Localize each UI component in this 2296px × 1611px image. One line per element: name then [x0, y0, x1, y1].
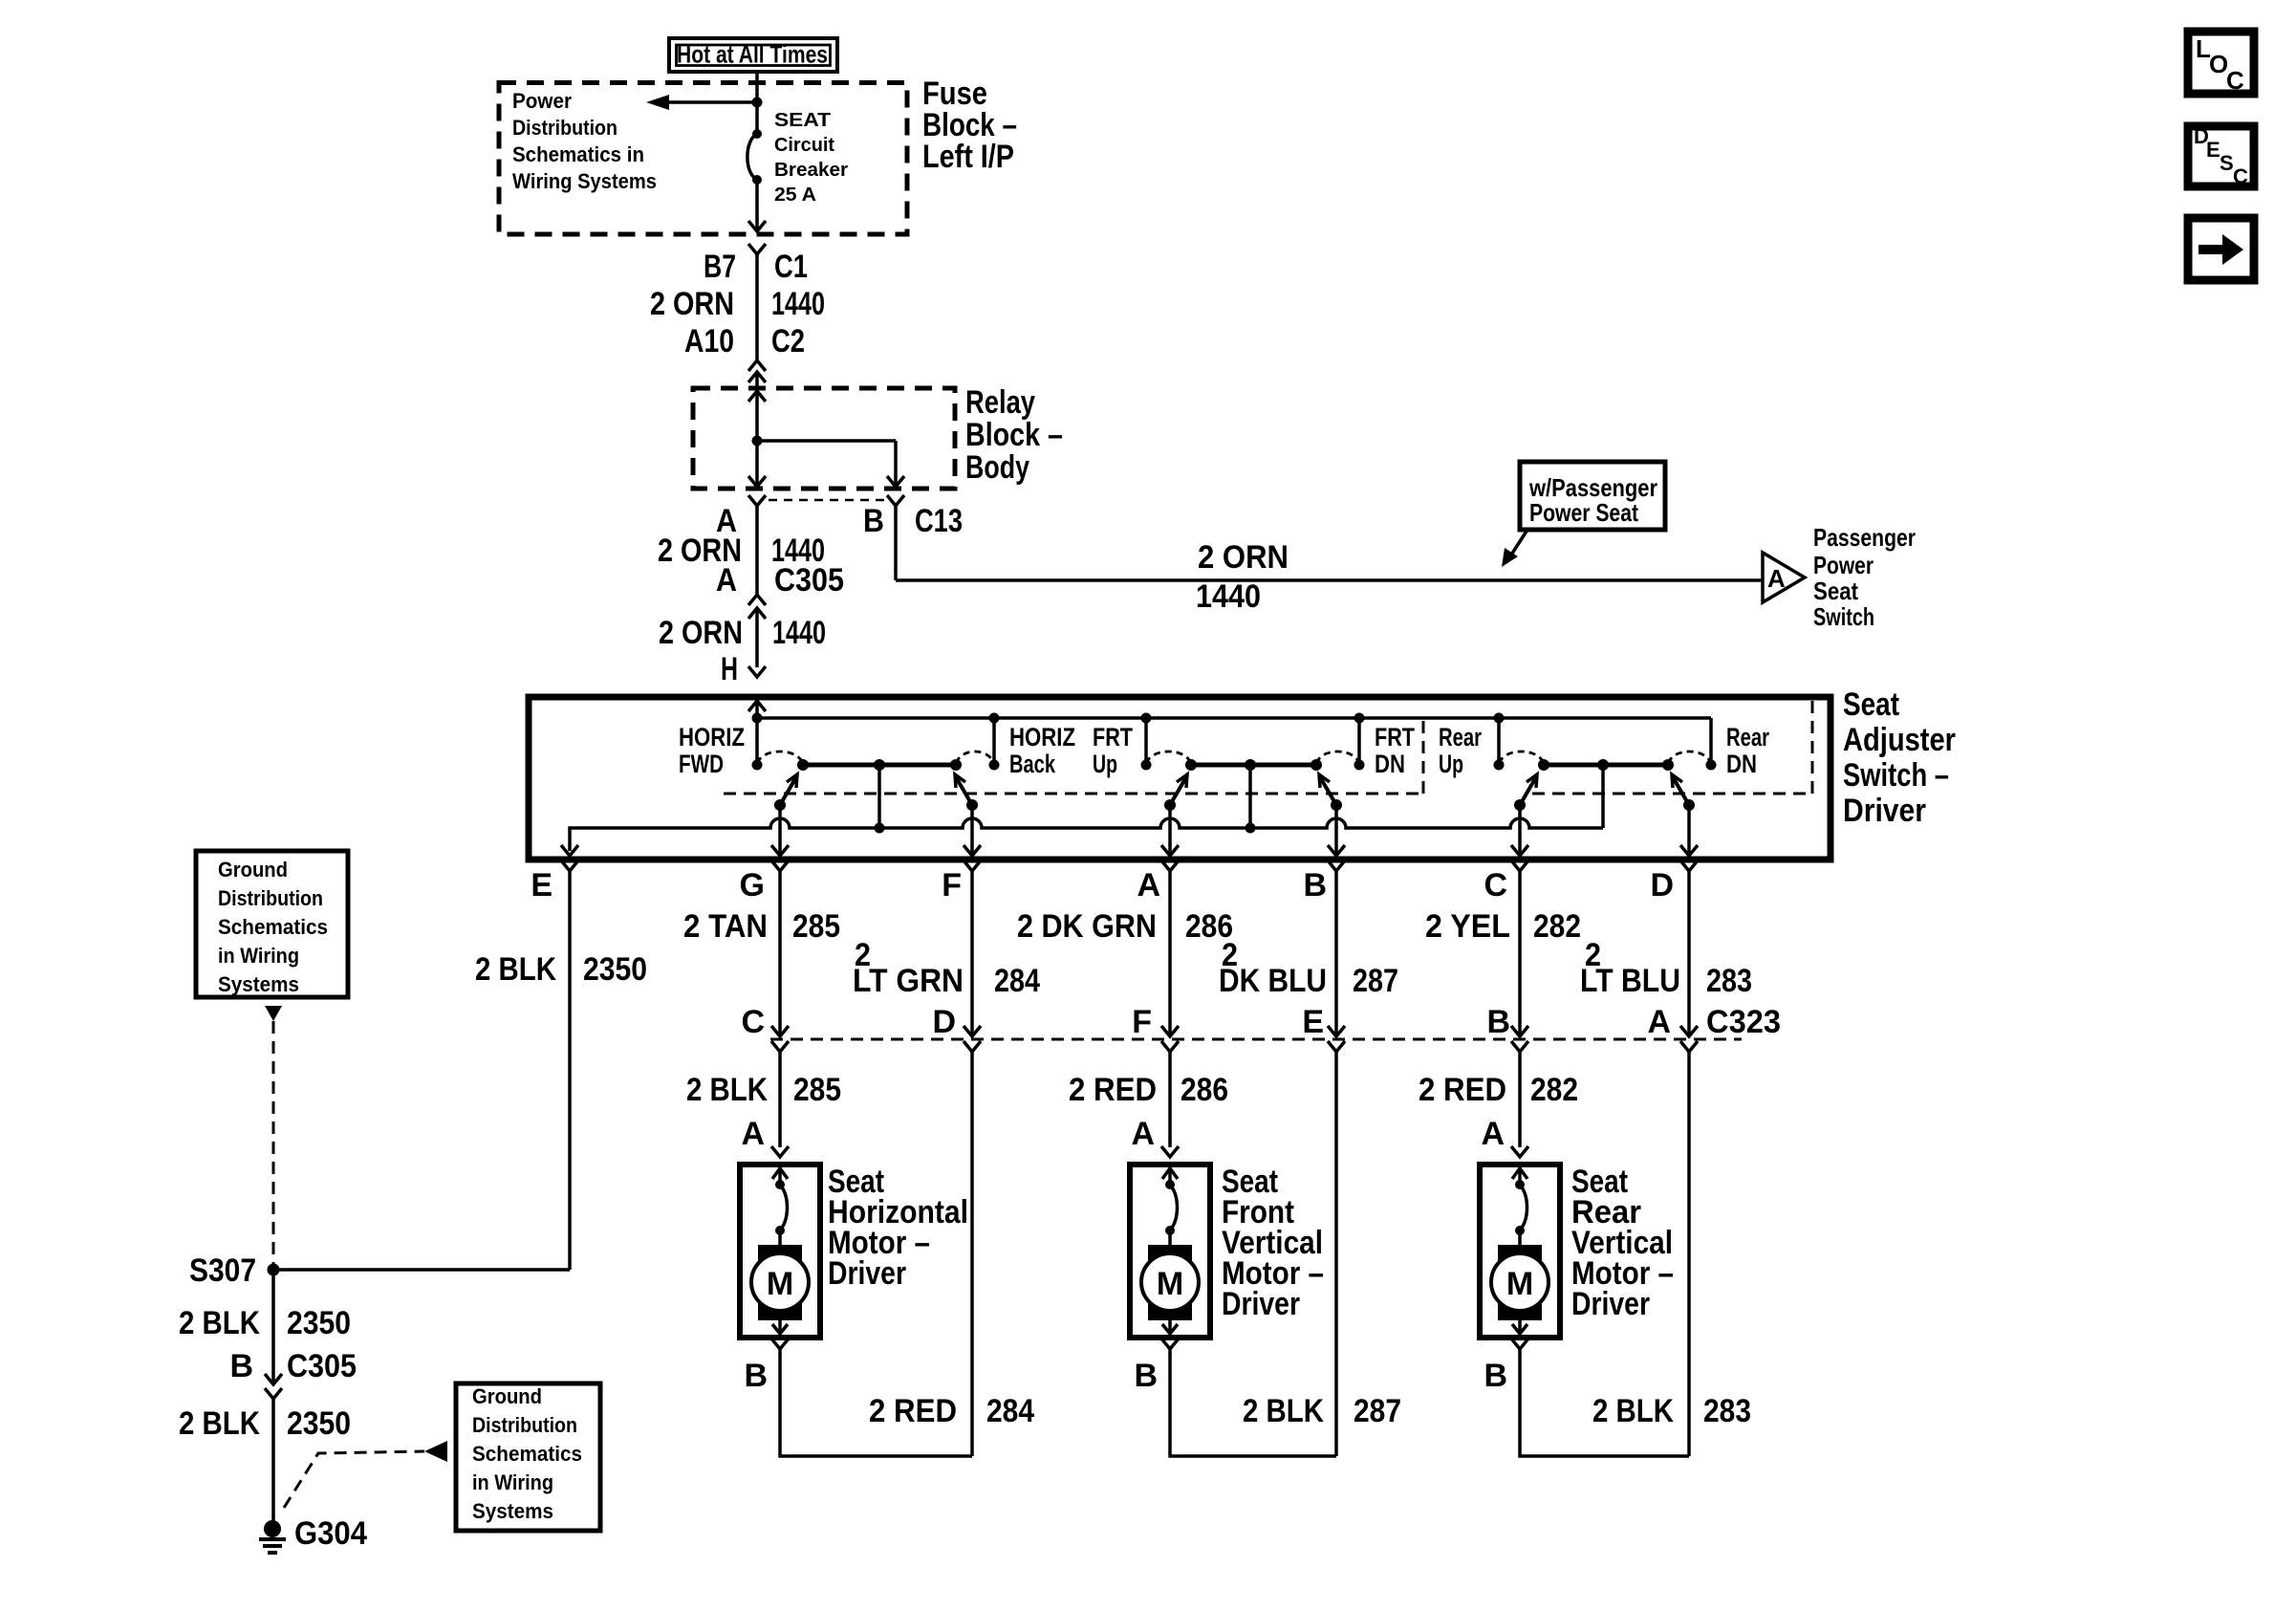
svg-text:285: 285 — [792, 908, 840, 945]
svg-text:282: 282 — [1530, 1072, 1578, 1108]
svg-text:S307: S307 — [189, 1252, 256, 1289]
svg-text:284: 284 — [994, 963, 1040, 999]
svg-text:Power Seat: Power Seat — [1529, 498, 1638, 527]
switch group 2 (front vertical): right wiper arm — [1319, 774, 1342, 811]
svg-text:Ground: Ground — [218, 858, 288, 882]
svg-text:Up: Up — [1439, 750, 1463, 778]
off-page connector A to Passenger Power Seat Switch — [1763, 553, 1805, 602]
svg-text:Switch –: Switch – — [1843, 757, 1949, 794]
wire: branch to power distribution schematics (left arrow) — [646, 95, 757, 110]
svg-text:C: C — [741, 1004, 765, 1040]
label: Passenger Power Seat Switch — [1813, 523, 1916, 631]
svg-text:Distribution: Distribution — [472, 1413, 577, 1437]
svg-text:D: D — [932, 1004, 956, 1040]
svg-text:H: H — [721, 651, 738, 687]
label HORIZ FWD — [679, 723, 745, 778]
exit arrow at switch pin C — [1511, 845, 1528, 856]
svg-text:287: 287 — [1353, 963, 1398, 999]
svg-text:A: A — [1137, 867, 1160, 903]
switch group 3 (rear vertical): blade — [1538, 759, 1674, 771]
svg-text:285: 285 — [793, 1072, 841, 1108]
svg-text:2 ORN: 2 ORN — [1198, 539, 1289, 576]
svg-text:2 RED: 2 RED — [1419, 1072, 1506, 1108]
wire: circuit 1440, 2 ORN from relay pin A to C305 — [755, 506, 759, 595]
svg-text:283: 283 — [1706, 963, 1752, 999]
svg-text:1440: 1440 — [772, 615, 826, 651]
switch group 1 (seat horizontal): left wiper arm — [774, 774, 797, 811]
wire: feed stub to FRT DN contact — [1357, 718, 1361, 765]
switch group 1 (seat horizontal): right wiper arm — [955, 774, 978, 811]
connector C323 halves at pin A — [1680, 1026, 1698, 1052]
reference arrow into dashed wire — [424, 1441, 447, 1462]
svg-text:Schematics: Schematics — [218, 915, 328, 939]
switch group 1 (seat horizontal): rest-position dashed arc right — [956, 751, 994, 763]
switch S: Seat Adjuster Switch - Driver box — [529, 697, 1830, 860]
wire: feed stub to FRT Up contact — [1144, 718, 1148, 765]
svg-text:LT GRN: LT GRN — [853, 963, 964, 999]
connector C13 dashed mating line — [769, 499, 886, 502]
svg-text:A: A — [741, 1116, 765, 1152]
reference icon box DESC — [2188, 124, 2254, 188]
junction node at fuse block feed — [752, 98, 763, 108]
wire: circuit 286, 2 DK GRN from switch A to C323 — [1168, 871, 1172, 1036]
wire: blade center tap to ground rail — [877, 765, 881, 828]
wire: circuit 2350, 2 BLK from S307 to C305 — [271, 1270, 275, 1384]
wire: circuit 1440, 2 ORN from relay pin B to passenger power seat switch — [896, 506, 1762, 580]
svg-text:C: C — [2233, 164, 2248, 188]
svg-text:Driver: Driver — [1571, 1286, 1650, 1322]
wire: circuit 1440, 2 ORN from C305 to switch pin H — [755, 608, 759, 667]
exit arrow at relay pin A — [748, 476, 766, 487]
svg-text:2 RED: 2 RED — [869, 1393, 957, 1429]
tag box "Hot at All Times" — [669, 38, 837, 72]
wire label 2 LT BLU (stacked) — [1580, 937, 1680, 999]
label: Fuse Block - Left I/P — [922, 76, 1017, 175]
svg-text:C1: C1 — [774, 249, 808, 285]
svg-text:B: B — [1484, 1358, 1507, 1394]
ground G304 — [259, 1520, 286, 1553]
wire: feed stub to HORIZ Back contact — [992, 718, 996, 765]
svg-text:Driver: Driver — [1222, 1286, 1300, 1322]
svg-text:2 BLK: 2 BLK — [686, 1072, 768, 1108]
svg-text:F: F — [1132, 1004, 1152, 1040]
wire: circuit 283, 2 LT BLU from switch D to C323 — [1687, 871, 1691, 1036]
junction node: group 2 center tap on ground rail — [1245, 823, 1256, 834]
svg-text:A: A — [1647, 1004, 1671, 1040]
svg-text:2 RED: 2 RED — [1069, 1072, 1157, 1108]
reference icon box with arrow — [2188, 218, 2254, 280]
svg-text:Block –: Block – — [965, 417, 1063, 453]
svg-text:Circuit: Circuit — [774, 134, 834, 156]
connector half at front vertical motor pin A — [1161, 1146, 1179, 1157]
svg-text:A: A — [716, 562, 737, 599]
label: Relay Block - Body — [965, 384, 1063, 486]
svg-text:C13: C13 — [915, 503, 963, 539]
switch group 3 (rear vertical): right wiper arm — [1672, 774, 1695, 811]
svg-text:Schematics: Schematics — [472, 1442, 582, 1466]
switch group 3 (rear vertical): left wiper arm — [1514, 774, 1537, 811]
svg-text:2350: 2350 — [287, 1405, 351, 1442]
note: Power Distribution Schematics in Wiring Systems — [512, 89, 657, 193]
contact Rear Up — [1494, 760, 1505, 771]
svg-text:2 ORN: 2 ORN — [659, 615, 743, 651]
svg-text:DN: DN — [1375, 750, 1405, 778]
svg-text:A: A — [1131, 1116, 1155, 1152]
connector half at front vertical motor pin B — [1161, 1339, 1179, 1349]
svg-text:2 BLK: 2 BLK — [1243, 1393, 1324, 1429]
junction node: feed rail at HORIZ Back — [989, 713, 1000, 724]
contact Rear DN — [1706, 760, 1717, 771]
svg-text:284: 284 — [986, 1393, 1034, 1429]
connector C1 female half below fuse block — [748, 244, 766, 254]
svg-text:in Wiring: in Wiring — [218, 944, 299, 968]
svg-text:Distribution: Distribution — [512, 116, 617, 140]
svg-text:2 TAN: 2 TAN — [683, 908, 768, 945]
junction node: group 1 center tap on ground rail — [875, 823, 885, 834]
switch group 2 (front vertical): blade — [1185, 759, 1322, 771]
junction node: feed rail at HORIZ FWD — [752, 713, 763, 724]
junction node inside relay block — [752, 436, 763, 446]
in-line connector C2 — [748, 360, 766, 388]
svg-text:283: 283 — [1703, 1393, 1751, 1429]
svg-text:Systems: Systems — [218, 972, 299, 996]
wire: circuit 1440, 2 ORN from C1 to C2 — [755, 254, 759, 360]
svg-text:2 BLK: 2 BLK — [1592, 1393, 1674, 1429]
connector C323 halves at pin D — [964, 1026, 981, 1052]
svg-text:Power: Power — [512, 89, 572, 113]
wire label 2 LT GRN (stacked) — [853, 937, 964, 999]
connector C323 halves at pin F — [1161, 1026, 1179, 1052]
svg-text:B7: B7 — [704, 249, 736, 285]
svg-text:Ground: Ground — [472, 1384, 542, 1408]
connector half at horizontal motor pin A — [771, 1146, 789, 1157]
contact FRT DN — [1354, 760, 1365, 771]
svg-text:2350: 2350 — [287, 1305, 351, 1341]
connector half at horizontal motor pin B — [771, 1339, 789, 1349]
svg-text:Relay: Relay — [965, 384, 1035, 421]
wire: circuit 284 return leg to horizontal motor pin B — [970, 1052, 974, 1456]
dashed reference wire from G304 to ground distribution box — [284, 1451, 424, 1508]
svg-text:B: B — [744, 1358, 768, 1394]
wire: circuit 285, 2 TAN from switch G to C323 — [778, 871, 782, 1036]
wire: left wiper to output pin — [1168, 805, 1172, 856]
svg-text:Up: Up — [1093, 750, 1117, 778]
svg-text:Wiring Systems: Wiring Systems — [512, 169, 657, 193]
motor M2: Seat Front Vertical Motor - Driver (with internal circuit breaker) — [1130, 1165, 1210, 1338]
reference box: Ground Distribution Schematics in Wiring Systems (lower) — [456, 1383, 600, 1531]
connector C323 halves at pin E — [1328, 1026, 1345, 1052]
switch group 3 (rear vertical): rest-position dashed arc right — [1668, 751, 1711, 763]
svg-text:E: E — [1302, 1004, 1324, 1040]
svg-text:Rear: Rear — [1726, 723, 1769, 751]
wire: blade center tap to ground rail — [1601, 765, 1605, 828]
wire: switch feed entry at pin H — [748, 701, 766, 765]
svg-text:E: E — [531, 867, 552, 903]
svg-text:Driver: Driver — [1843, 793, 1926, 829]
svg-text:B: B — [1303, 867, 1327, 903]
svg-text:LT BLU: LT BLU — [1580, 963, 1680, 999]
connector half below switch pin C — [1511, 860, 1528, 871]
reference arrow from ground distribution box — [265, 1006, 282, 1021]
wire: circuit 285, 2 BLK from C323 to horizontal motor pin A — [778, 1052, 782, 1147]
junction node: feed rail at FRT DN — [1354, 713, 1365, 724]
reference box: Ground Distribution Schematics in Wiring Systems (upper) — [196, 851, 348, 997]
exit arrow at switch pin B — [1328, 845, 1345, 856]
wire: circuit 2350, 2 BLK from C305 to ground G304 — [271, 1399, 275, 1524]
label: Seat Rear Vertical Motor - Driver — [1571, 1164, 1674, 1322]
svg-text:FRT: FRT — [1093, 723, 1133, 751]
in-line connector C305 — [748, 595, 766, 619]
svg-text:HORIZ: HORIZ — [1009, 723, 1075, 751]
connector half at rear vertical motor pin A — [1511, 1146, 1528, 1157]
splice S307 — [268, 1264, 280, 1276]
svg-text:DK BLU: DK BLU — [1219, 963, 1327, 999]
svg-text:C305: C305 — [774, 562, 844, 599]
svg-text:Breaker: Breaker — [774, 159, 848, 181]
wire: relay internal branch to pin B — [757, 441, 896, 487]
svg-text:2 BLK: 2 BLK — [179, 1305, 260, 1341]
dashed divider between FRT DN and Rear Up — [1422, 718, 1425, 794]
svg-text:Body: Body — [965, 449, 1029, 486]
svg-text:Schematics in: Schematics in — [512, 142, 644, 166]
wire: right wiper to output pin — [1334, 805, 1338, 856]
wire: circuit 287 return leg to front vertical motor pin B — [1334, 1052, 1338, 1456]
connector half below switch pin B — [1328, 860, 1345, 871]
contact HORIZ FWD — [752, 760, 763, 771]
wire: breaker output to fuse block pin B7 — [748, 180, 766, 231]
svg-text:282: 282 — [1533, 908, 1581, 945]
connector C13 half at relay pin B — [887, 495, 904, 506]
dashed divider right of Rear DN — [1811, 699, 1814, 794]
svg-text:G304: G304 — [294, 1515, 367, 1552]
label Rear Up — [1439, 723, 1482, 778]
svg-text:A: A — [1481, 1116, 1505, 1152]
svg-text:A10: A10 — [684, 323, 734, 359]
exit arrow at switch pin F — [964, 845, 981, 856]
svg-text:F: F — [942, 867, 962, 903]
motor M3: Seat Rear Vertical Motor - Driver (with internal circuit breaker) — [1480, 1165, 1560, 1338]
connector half below switch pin E — [561, 860, 578, 871]
label HORIZ Back — [1009, 723, 1075, 778]
junction node: feed rail at Rear Up — [1494, 713, 1505, 724]
svg-text:1440: 1440 — [1196, 578, 1261, 615]
svg-text:FWD: FWD — [679, 750, 724, 778]
dashed mechanical coupling line, group 3 — [1532, 793, 1812, 795]
connector half below switch pin A — [1161, 860, 1179, 871]
wire: ground return rail to pin E with hops over crossing wires — [570, 818, 1603, 851]
label: Seat Horizontal Motor - Driver — [828, 1164, 968, 1292]
svg-text:Seat: Seat — [1843, 686, 1899, 723]
svg-text:A: A — [1767, 564, 1786, 593]
svg-text:E: E — [2206, 138, 2220, 162]
switch group 1 (seat horizontal): blade — [797, 759, 962, 771]
svg-text:B: B — [1486, 1004, 1510, 1040]
wire: battery feed from Hot at All Times into fuse block — [755, 72, 759, 134]
connector C323 halves at pin C — [771, 1026, 789, 1052]
wire: circuit 286, 2 RED from C323 to front vertical motor pin A — [1168, 1052, 1172, 1147]
svg-text:S: S — [2220, 151, 2234, 175]
wire: right wiper to output pin — [1687, 805, 1691, 856]
wire: circuit 2350, 2 BLK from switch pin E down to splice S307 — [568, 871, 572, 1270]
svg-text:Passenger: Passenger — [1813, 523, 1916, 552]
wire: circuit 287, 2 BLK from front vertical motor pin B — [1170, 1349, 1336, 1456]
label Rear DN — [1726, 723, 1769, 778]
connector half at switch pin H — [748, 666, 766, 677]
circuit breaker SEAT 25 A — [747, 129, 762, 185]
fuse block dashed outline (Fuse Block - Left I/P) — [499, 83, 907, 235]
svg-text:C305: C305 — [287, 1348, 357, 1384]
switch group 1 (seat horizontal): rest-position dashed arc left — [757, 751, 803, 763]
in-line connector C305 (ground leg) — [265, 1374, 282, 1399]
connector half below switch pin F — [964, 860, 981, 871]
reference icon box LOC — [2188, 32, 2254, 95]
wire: circuit 282, 2 YEL from switch C to C323 — [1518, 871, 1522, 1036]
svg-text:Power: Power — [1813, 551, 1874, 579]
svg-text:C: C — [2226, 66, 2244, 95]
tag box "w/Passenger Power Seat" with pointer arrow — [1502, 462, 1665, 567]
contact FRT Up — [1141, 760, 1152, 771]
connector half below switch pin D — [1680, 860, 1698, 871]
svg-text:25 A: 25 A — [774, 184, 816, 206]
dashed mechanical coupling line, groups 1-2 — [724, 793, 1423, 795]
svg-text:Switch: Switch — [1813, 602, 1874, 631]
wire: left wiper to output pin — [778, 805, 782, 856]
svg-text:287: 287 — [1354, 1393, 1401, 1429]
svg-text:C: C — [1484, 867, 1507, 903]
svg-text:2 BLK: 2 BLK — [475, 951, 556, 988]
wire label 2 DK BLU (stacked) — [1219, 937, 1327, 999]
wire: circuit 282, 2 RED from C323 to rear vertical motor pin A — [1518, 1052, 1522, 1147]
exit arrow at switch pin D — [1680, 845, 1698, 856]
connector half at relay pin A — [748, 495, 766, 506]
connector C323 halves at pin B — [1511, 1026, 1528, 1052]
connector half at rear vertical motor pin B — [1511, 1339, 1528, 1349]
wire: circuit 284, 2 RED from horizontal motor pin B — [780, 1349, 972, 1456]
switch group 2 (front vertical): left wiper arm — [1164, 774, 1187, 811]
svg-text:Back: Back — [1009, 750, 1056, 778]
svg-text:1440: 1440 — [771, 286, 825, 322]
wire: right wiper to output pin — [970, 805, 974, 856]
connector C323 dashed line — [770, 1038, 1742, 1041]
svg-text:Driver: Driver — [828, 1255, 906, 1292]
connector half below switch pin G — [771, 860, 789, 871]
svg-text:2 YEL: 2 YEL — [1425, 908, 1510, 945]
svg-text:B: B — [863, 503, 884, 539]
exit arrow at switch pin A — [1161, 845, 1179, 856]
contact HORIZ Back — [989, 760, 1000, 771]
svg-text:G: G — [740, 867, 765, 903]
label FRT Up — [1093, 723, 1133, 778]
wire: circuit 284, 2 LT GRN from switch F to C323 — [970, 871, 974, 1036]
svg-text:286: 286 — [1180, 1072, 1228, 1108]
svg-text:B: B — [229, 1348, 253, 1384]
exit arrow at relay pin B — [887, 476, 904, 487]
exit arrow at switch pin E — [561, 845, 578, 856]
svg-text:FRT: FRT — [1375, 723, 1415, 751]
wire: circuit 287, 2 DK BLU from switch B to C323 — [1334, 871, 1338, 1036]
wire: left wiper to output pin — [1518, 805, 1522, 856]
switch group 2 (front vertical): rest-position dashed arc right — [1316, 751, 1359, 763]
wire: circuit 283 return leg to rear vertical motor pin B — [1687, 1052, 1691, 1456]
svg-text:Left I/P: Left I/P — [922, 139, 1014, 175]
junction node: feed rail at FRT Up — [1141, 713, 1152, 724]
wire: S307 to switch pin E leg — [273, 1268, 570, 1272]
wire: circuit 283, 2 BLK from rear vertical motor pin B — [1520, 1349, 1689, 1456]
svg-text:Seat: Seat — [1813, 577, 1858, 605]
svg-text:2350: 2350 — [583, 951, 647, 988]
svg-text:Hot at All Times: Hot at All Times — [677, 40, 828, 69]
label FRT DN — [1375, 723, 1415, 778]
relay block dashed outline (Relay Block - Body) — [693, 388, 955, 489]
switch group 2 (front vertical): rest-position dashed arc left — [1146, 751, 1191, 763]
svg-text:Systems: Systems — [472, 1499, 553, 1523]
switch group 3 (rear vertical): rest-position dashed arc left — [1499, 751, 1544, 763]
wire: relay block internal feed (entry arrow) — [748, 391, 766, 487]
label: Seat Front Vertical Motor - Driver — [1222, 1164, 1324, 1322]
svg-text:DN: DN — [1726, 750, 1757, 778]
motor M1: Seat Horizontal Motor - Driver (with internal circuit breaker) — [740, 1165, 820, 1338]
svg-text:B: B — [1134, 1358, 1158, 1394]
label: Seat Adjuster Switch - Driver — [1843, 686, 1956, 829]
svg-text:Distribution: Distribution — [218, 886, 323, 910]
wire: blade center tap to ground rail — [1248, 765, 1252, 828]
svg-text:2 DK GRN: 2 DK GRN — [1017, 908, 1157, 945]
svg-text:Rear: Rear — [1439, 723, 1482, 751]
exit arrow at switch pin G — [771, 845, 789, 856]
svg-text:C2: C2 — [771, 323, 805, 359]
wire: B+ feed rail inside switch — [757, 718, 1711, 765]
svg-text:SEAT: SEAT — [774, 109, 832, 131]
svg-text:D: D — [1650, 867, 1674, 903]
wire: feed stub to Rear Up contact — [1497, 718, 1501, 765]
svg-text:C323: C323 — [1706, 1004, 1781, 1040]
svg-text:HORIZ: HORIZ — [679, 723, 745, 751]
dashed reference wire to splice S307 — [272, 1021, 275, 1264]
value label: SEAT Circuit Breaker 25 A — [774, 109, 848, 206]
svg-text:2 ORN: 2 ORN — [650, 286, 734, 322]
svg-text:Adjuster: Adjuster — [1843, 722, 1956, 758]
svg-text:in Wiring: in Wiring — [472, 1470, 553, 1494]
svg-text:2 BLK: 2 BLK — [179, 1405, 260, 1442]
